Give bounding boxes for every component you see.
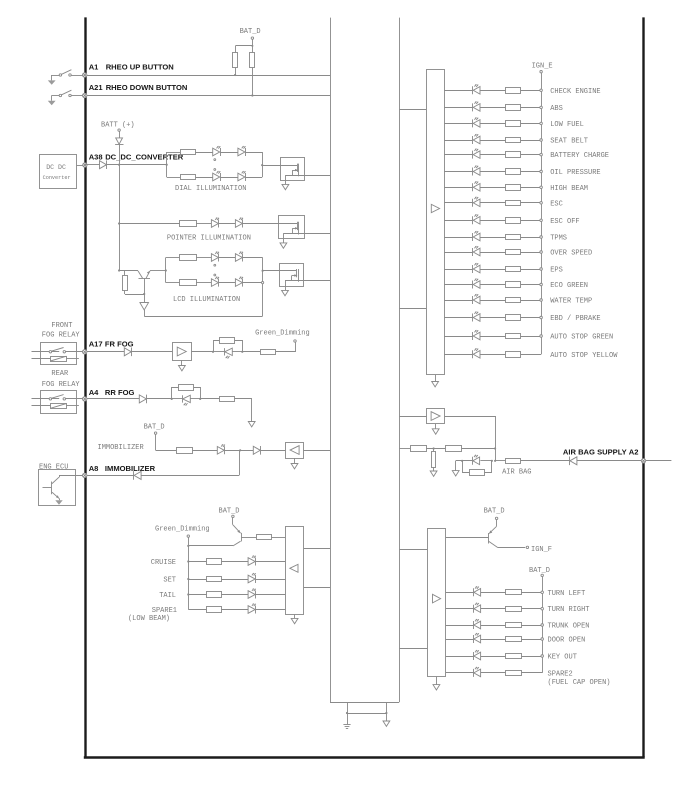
connector A21 [83, 93, 87, 97]
svg-text:TRUNK OPEN: TRUNK OPEN [548, 623, 590, 631]
svg-text:POINTER ILLUMINATION: POINTER ILLUMINATION [167, 235, 251, 243]
svg-text:BAT_D: BAT_D [219, 507, 240, 515]
transistor Q-lcd driver [280, 264, 304, 287]
node cruise bus SET [187, 578, 189, 580]
LED D-rrfog [172, 395, 201, 405]
LED D-SPARE2 [474, 667, 481, 677]
LED D-lcd2 [235, 252, 243, 262]
label FRONT FOG RELAY [42, 322, 81, 340]
wire SPARE1 row [188, 609, 285, 611]
svg-text:OVER SPEED: OVER SPEED [550, 250, 592, 258]
resistor R-AUTO STOP GREEN [506, 334, 521, 339]
ground at dial driver [282, 180, 289, 189]
node cruise bus CRUISE [187, 560, 189, 562]
LED D-ABS [473, 101, 481, 111]
LED D-EBD / PBRAKE [473, 312, 481, 322]
wire airbag to resistor [495, 460, 505, 462]
wire AUTO STOP GREEN row [444, 336, 541, 338]
wire cluster gnd link [346, 712, 388, 714]
node CHECK ENGINE [540, 88, 601, 96]
resistor R-SEAT BELT [506, 138, 521, 143]
wire immob mid [193, 450, 218, 452]
LED D-OVER SPEED [473, 246, 481, 256]
svg-text:FRONT: FRONT [51, 322, 72, 330]
svg-text:LCD ILLUMINATION: LCD ILLUMINATION [173, 296, 240, 304]
node BAT_D top [240, 28, 261, 47]
svg-text:SPARE1: SPARE1 [152, 607, 177, 615]
block DC DC converter [40, 155, 77, 189]
wire green base to box [272, 537, 286, 539]
label TAIL [159, 592, 176, 600]
resistor R-ESC [506, 201, 521, 206]
wire ECO GREEN row [444, 284, 541, 286]
wire dial driver to cluster [304, 175, 330, 177]
resistor R-CRUISE [207, 559, 222, 565]
LED D-BATTERY CHARGE [473, 149, 481, 159]
svg-text:DIAL ILLUMINATION: DIAL ILLUMINATION [175, 185, 246, 193]
label A4 [89, 388, 135, 397]
ground at immob buffer [291, 458, 298, 469]
resistor R-ABS [506, 105, 521, 111]
wire airbag to diode [520, 460, 569, 462]
svg-text:A17: A17 [89, 339, 103, 348]
svg-text:EPS: EPS [550, 267, 563, 275]
LED D-immob [217, 444, 225, 454]
svg-text:A2: A2 [629, 447, 639, 456]
label POINTER ILLUMINATION [167, 235, 251, 243]
node Green_Dimming bottom [155, 526, 210, 547]
resistor R-OVER SPEED [506, 250, 521, 255]
LED D-ECO GREEN [473, 279, 481, 289]
wire WATER TEMP row [444, 300, 541, 302]
wire ESC row [444, 202, 541, 204]
connector A1 [83, 73, 87, 77]
resistor R-TURN RIGHT [506, 607, 522, 612]
LED D-LOW FUEL [473, 117, 481, 127]
wire cluster gnd stub left [347, 702, 349, 713]
transistor Q-lcd bjt [138, 271, 150, 294]
wire A4 row [87, 398, 139, 400]
ground at frfog buffer [179, 360, 186, 371]
svg-text:AUTO STOP YELLOW: AUTO STOP YELLOW [550, 352, 618, 360]
node IGN_F [526, 546, 552, 554]
node TURN LEFT [541, 590, 585, 598]
svg-text:IGN_F: IGN_F [531, 546, 552, 554]
wire cluster to U1 b [399, 308, 426, 310]
resistor R-BATTERY CHARGE [506, 152, 521, 158]
wire dial left bus [166, 152, 168, 177]
svg-text:BAT_D: BAT_D [240, 28, 261, 36]
resistor R-HIGH BEAM [506, 185, 521, 191]
wire pointer mid [196, 223, 211, 225]
wire R2 to A21 row [251, 68, 253, 97]
wire lcd row1 mid [196, 257, 211, 259]
LED D-SPARE1 [248, 604, 256, 614]
wire lcd right bus [262, 258, 264, 317]
LED D-TRUNK OPEN [474, 619, 481, 629]
node KEY OUT [541, 654, 577, 662]
ground at lcd driver [282, 286, 289, 295]
node cruise bus TAIL [187, 593, 189, 595]
LED D-ESC [473, 197, 481, 207]
wire to signal ground [386, 713, 388, 721]
label LOW BEAM [128, 615, 170, 623]
diode D-frfog [124, 348, 131, 357]
transistor Q-green [188, 525, 256, 546]
wire airbag supply ext [646, 460, 672, 462]
wire lcd bjt feed [119, 270, 138, 272]
label LCD ILLUMINATION [173, 296, 240, 304]
wire U3 out1 [304, 548, 330, 550]
telltale driver box U1 [427, 70, 445, 375]
wire dial row2 mid2 [220, 177, 238, 179]
node IGN_E [532, 62, 553, 90]
resistor R-KEY OUT [506, 654, 522, 659]
node EBD / PBRAKE [540, 315, 601, 323]
node TRUNK OPEN [541, 623, 590, 631]
resistor R-TURN LEFT [506, 590, 522, 595]
svg-text:REAR: REAR [51, 370, 69, 378]
connector A4 [83, 397, 87, 401]
svg-text:DC_DC_CONVERTER: DC_DC_CONVERTER [105, 153, 184, 162]
LED D-lcd3 [211, 277, 219, 287]
wire pointer right [243, 223, 278, 225]
buffer U-frfog [173, 343, 192, 361]
ground at pointer driver [280, 239, 287, 248]
svg-text:A21: A21 [89, 83, 104, 92]
svg-text:CHECK ENGINE: CHECK ENGINE [550, 88, 600, 96]
wire U3 out2 [304, 587, 330, 589]
ground at SW1 [48, 75, 56, 85]
node frfog junction [241, 351, 243, 353]
resistor R-DOOR OPEN [506, 637, 522, 642]
wire illumination bus down [119, 165, 121, 271]
wire lcd row2 right [243, 282, 263, 284]
wire AUTO STOP YELLOW row [444, 354, 541, 356]
resistor R-AUTO STOP YELLOW [506, 352, 521, 358]
svg-text:AIR BAG SUPPLY: AIR BAG SUPPLY [563, 447, 627, 456]
resistor R-LOW FUEL [506, 121, 521, 127]
wire lcd bjt collector [150, 270, 166, 272]
LED D-HIGH BEAM [473, 181, 481, 191]
wire pointer mid2 [219, 223, 235, 225]
cluster box right edge [399, 18, 401, 702]
wire lcd row2 mid [196, 282, 211, 284]
label REAR FOG RELAY [42, 370, 81, 389]
svg-text:FOG RELAY: FOG RELAY [42, 381, 81, 389]
node BATT(+) [101, 121, 135, 137]
svg-text:A4: A4 [89, 388, 99, 397]
LED D-pointer1 [211, 218, 219, 228]
resistor R-SET [207, 577, 222, 582]
LED D-lcd1 [211, 252, 219, 262]
svg-text:A8: A8 [89, 464, 99, 473]
ground at rrfog [248, 422, 255, 427]
buffer U-immob [286, 443, 304, 459]
ground at airbag led [452, 471, 459, 476]
svg-text:BAT_D: BAT_D [484, 508, 505, 516]
resistor R-SPARE1 [207, 607, 222, 613]
resistor R1 pullup [233, 53, 238, 68]
node cruise bus SPARE1 [0, 0, 1, 1]
node ABS [540, 105, 563, 113]
wire TPMS row [444, 237, 541, 239]
wire airbag bus down [491, 449, 496, 462]
wire dial row1 mid2 [220, 152, 238, 154]
LED D-TURN RIGHT [474, 603, 481, 613]
node pointer tap [118, 222, 120, 224]
wire ABS row [444, 107, 541, 109]
resistor R-airbag out [506, 459, 521, 464]
wire cluster to U1 a [399, 109, 426, 111]
node WATER TEMP [540, 298, 592, 306]
svg-text:ABS: ABS [550, 105, 563, 113]
wire airbag lower branch [463, 461, 492, 473]
wire TURN LEFT row [446, 592, 542, 594]
svg-text:KEY OUT: KEY OUT [548, 654, 577, 662]
resistor R-TAIL [207, 592, 222, 598]
wire A21 row [85, 95, 330, 97]
svg-text:TPMS: TPMS [550, 235, 567, 243]
wire LOW FUEL row [444, 123, 541, 125]
node ECO GREEN [540, 282, 588, 290]
LED D-TAIL [248, 589, 256, 599]
label A17 [89, 339, 134, 348]
svg-text:RHEO DOWN BUTTON: RHEO DOWN BUTTON [106, 83, 188, 92]
connector A17 [83, 350, 87, 354]
wire airbag buffer out [445, 417, 496, 449]
svg-text:DC DC: DC DC [46, 164, 66, 171]
wire lcd row2 left [166, 282, 180, 284]
buffer symbol in U3 [290, 564, 298, 572]
wire TURN RIGHT row [446, 608, 542, 610]
wire lcd row2 mid2 [219, 282, 235, 284]
block ENG ECU [39, 470, 76, 506]
resistor R-rrfog out [220, 397, 235, 402]
resistor R-lcd base [123, 271, 146, 296]
wire CHECK ENGINE row [444, 90, 541, 92]
wire IGN_E bus [541, 90, 543, 354]
resistor R-CHECK ENGINE [506, 88, 521, 94]
node LCD bjt tap [118, 269, 120, 271]
label CRUISE [151, 559, 176, 567]
node ESC [540, 200, 563, 208]
resistor R-ESC OFF [506, 218, 521, 224]
wire dial row2 right [246, 177, 263, 179]
wire A17 row [87, 351, 124, 353]
transistor Q-pointer driver [278, 216, 305, 239]
wire R1 to A1 row [234, 68, 236, 77]
node HIGH BEAM [540, 185, 588, 193]
diode D-immob2 [253, 446, 260, 455]
wire A8 to junction [141, 450, 239, 475]
wire dial row2 mid [196, 177, 213, 179]
wire A4 to branch [147, 398, 173, 400]
LED D-TPMS [473, 231, 481, 241]
wire U2 to bjt [446, 537, 489, 539]
node TURN RIGHT [541, 606, 590, 614]
svg-text:A1: A1 [89, 63, 99, 72]
resistor R-airbag2 [446, 446, 462, 452]
svg-text:AUTO STOP GREEN: AUTO STOP GREEN [550, 334, 613, 342]
LED D-dial3 [213, 171, 221, 181]
wire BATTERY CHARGE row [444, 154, 541, 156]
svg-text:(FUEL CAP OPEN): (FUEL CAP OPEN) [548, 679, 611, 687]
wire A17 to buffer [132, 351, 173, 353]
ground at engecu [55, 500, 62, 504]
wire airbag to connector [577, 460, 641, 462]
svg-text:AIR BAG: AIR BAG [502, 469, 531, 477]
transistor Q-ignf [489, 526, 526, 547]
wire lcd row1 right [243, 257, 263, 259]
wire DOOR OPEN row [446, 639, 542, 641]
svg-text:LOW FUEL: LOW FUEL [550, 121, 584, 129]
node SPARE2 [548, 670, 573, 678]
LED D-OIL PRESSURE [473, 166, 481, 176]
node OVER SPEED [540, 250, 592, 258]
wire EBD / PBRAKE row [444, 317, 541, 319]
resistor R-frfog out [261, 350, 276, 355]
wire rrfog to resistor [200, 398, 219, 400]
wire cluster to airbag buffer [399, 416, 427, 418]
label A8 [89, 464, 156, 473]
wire immob mid2 [225, 449, 253, 451]
resistor R-airbag pulldown [432, 449, 436, 472]
relay K1 front fog [32, 343, 83, 365]
buffer symbol in U2 [433, 594, 441, 603]
wire airbag led row [456, 460, 492, 462]
LED D-WATER TEMP [473, 294, 481, 304]
diode D-rrfog [139, 395, 146, 404]
switch SW2 rheo down [52, 90, 83, 97]
wire dial row1 right [246, 152, 263, 154]
buffer symbol in U1 [431, 204, 439, 212]
svg-text:ECO GREEN: ECO GREEN [550, 282, 588, 290]
node Green_Dimming frfog [255, 329, 310, 342]
wire dial row1 left [167, 152, 180, 154]
resistor R-airbag1 [411, 446, 427, 452]
LED D-dial4 [238, 171, 246, 181]
svg-text:IMMOBILIZER: IMMOBILIZER [105, 464, 156, 473]
resistor R-frfog shunt [220, 338, 235, 344]
LED D-frfog [213, 348, 242, 358]
svg-text:IGN_E: IGN_E [532, 62, 553, 70]
sheet border left [84, 17, 86, 757]
relay K2 rear fog [32, 391, 83, 414]
telltale driver box U2 [428, 529, 446, 677]
label FUEL CAP OPEN [548, 679, 611, 687]
wire immob buffer to cluster [304, 450, 331, 452]
label SPARE1 [152, 607, 177, 615]
diode D-A8 [134, 471, 142, 480]
node TPMS [540, 235, 567, 243]
wire airbag row [399, 448, 410, 450]
LED D-ESC OFF [473, 214, 481, 224]
svg-text:TURN LEFT: TURN LEFT [548, 590, 586, 598]
resistor R-immob [177, 448, 193, 454]
LED D-AUTO STOP YELLOW [473, 348, 481, 358]
label A1 [89, 63, 174, 72]
node EPS [540, 267, 563, 275]
ground at U2 [433, 677, 440, 690]
wire TRUNK OPEN row [446, 625, 542, 627]
LED D-lcd4 [235, 277, 243, 287]
wire EPS row [444, 269, 541, 271]
svg-text:EBD / PBRAKE: EBD / PBRAKE [550, 315, 600, 323]
ground at airbag pulldown [430, 471, 437, 476]
transistor Q-engecu [43, 475, 83, 500]
wire pointer row left [119, 223, 179, 225]
svg-text:HIGH BEAM: HIGH BEAM [550, 185, 588, 193]
svg-text:(LOW BEAM): (LOW BEAM) [128, 615, 170, 623]
resistor R-dial2 [181, 175, 196, 180]
node AUTO STOP YELLOW [550, 352, 618, 360]
driver box U3 [286, 527, 304, 615]
LED D-CHECK ENGINE [473, 84, 481, 94]
svg-text:Green_Dimming: Green_Dimming [155, 526, 210, 534]
svg-text:IMMOBILIZER: IMMOBILIZER [98, 444, 145, 452]
node ESC OFF [540, 218, 580, 226]
node DOOR OPEN [541, 637, 585, 645]
svg-text:TURN RIGHT: TURN RIGHT [548, 606, 590, 614]
svg-text:BAT_D: BAT_D [529, 567, 550, 575]
wire cluster gnd stub right [386, 702, 388, 713]
wire rrfog branch down [194, 388, 201, 399]
resistor R-dial1 [181, 150, 196, 155]
cluster box bottom edge [330, 702, 399, 704]
ground at U1 [432, 375, 439, 387]
wire dial right bus [261, 152, 263, 177]
wire immob to buffer [261, 450, 286, 452]
wire airbag row mid [426, 447, 446, 449]
resistor R-lcd1 [180, 255, 197, 261]
diode D-batt feed [115, 138, 123, 165]
label ENG ECU [39, 463, 68, 471]
resistor R-TPMS [506, 235, 521, 240]
wire DCDC to connector [76, 165, 82, 167]
wire lcd driver to cluster [303, 280, 330, 282]
svg-text:Converter: Converter [43, 175, 71, 181]
node BAT_D U2 bjt [484, 508, 505, 527]
node BATTERY CHARGE [540, 152, 609, 160]
resistor R-EBD / PBRAKE [506, 315, 521, 321]
node dial center taps [214, 159, 216, 171]
wire lcd bottom return [144, 316, 262, 318]
wire pointer driver to cluster [304, 233, 330, 235]
LED D-airbag [473, 455, 480, 465]
wire cluster to U2 b [399, 648, 427, 650]
resistor R-rrfog shunt [179, 385, 194, 391]
svg-text:DOOR OPEN: DOOR OPEN [548, 637, 586, 645]
diode D-A38 [100, 160, 107, 169]
resistor R-lcd2 [180, 280, 197, 286]
wire lcd left bus [165, 258, 167, 283]
svg-text:ESC OFF: ESC OFF [550, 218, 579, 226]
buffer U-airbag [427, 409, 445, 424]
svg-text:SET: SET [163, 576, 176, 584]
resistor R-airbag shunt [470, 470, 485, 476]
wire SEAT BELT row [444, 140, 541, 142]
wire A38 to dial net [107, 164, 167, 166]
wire dial bus to driver [262, 165, 280, 167]
LED D-DOOR OPEN [474, 633, 481, 643]
wire lcd row1 mid2 [219, 257, 235, 259]
wire HIGH BEAM row [444, 187, 541, 189]
wire airbag row right [462, 447, 497, 449]
svg-text:FR FOG: FR FOG [105, 339, 134, 348]
sheet border right [642, 17, 644, 757]
LED D-dial2 [238, 146, 246, 156]
